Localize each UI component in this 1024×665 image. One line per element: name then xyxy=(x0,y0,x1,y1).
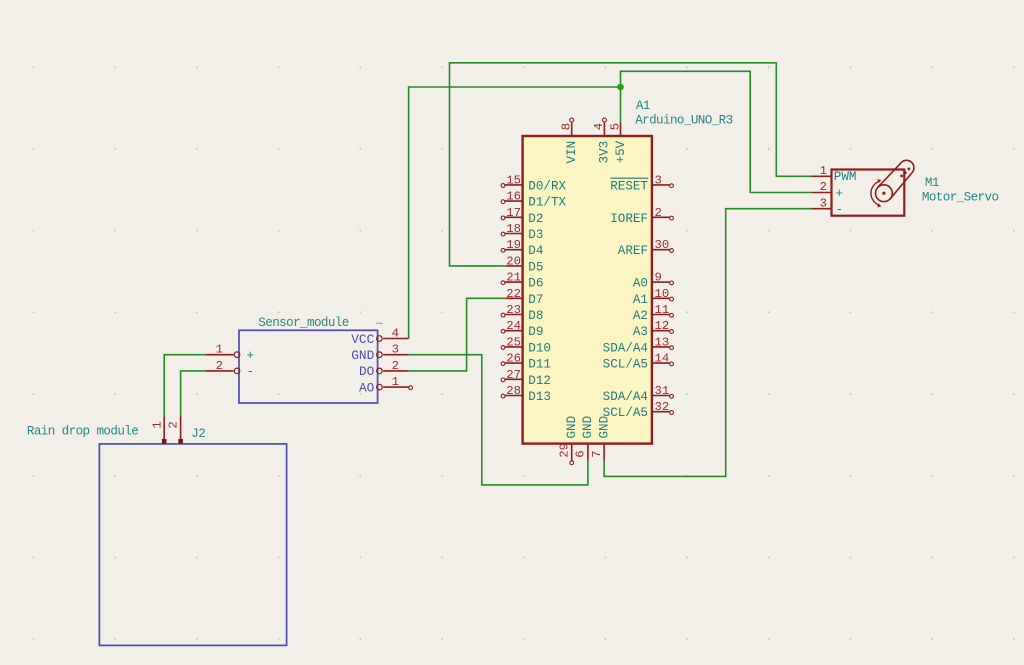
label Motor_Servo xyxy=(922,191,999,205)
pin 17 D2 xyxy=(501,206,543,226)
svg-text:1: 1 xyxy=(820,164,827,178)
wire sensor minus to J2 pin 2 xyxy=(181,371,206,416)
svg-text:D1/TX: D1/TX xyxy=(528,196,566,210)
sensor pin 4 VCC xyxy=(351,327,408,347)
label Sensor_module xyxy=(258,316,348,330)
pin 12 A3 xyxy=(633,319,674,339)
svg-text:D9: D9 xyxy=(528,325,543,339)
svg-text:2: 2 xyxy=(655,206,662,220)
svg-text:24: 24 xyxy=(506,319,521,333)
svg-text:SDA/A4: SDA/A4 xyxy=(603,390,648,404)
svg-text:GND: GND xyxy=(597,416,611,439)
svg-text:1: 1 xyxy=(216,343,223,357)
svg-text:3: 3 xyxy=(820,196,827,210)
svg-text:SDA/A4: SDA/A4 xyxy=(603,341,648,355)
svg-text:3V3: 3V3 xyxy=(598,141,612,164)
svg-text:J2: J2 xyxy=(191,427,205,441)
svg-text:2: 2 xyxy=(167,421,181,428)
pin 3 RESET xyxy=(610,173,673,193)
label Arduino_UNO_R3 xyxy=(635,114,732,128)
pin 21 D6 xyxy=(501,271,543,291)
svg-text:20: 20 xyxy=(506,254,521,268)
pin 18 D3 xyxy=(501,222,543,242)
svg-text:21: 21 xyxy=(506,271,521,285)
svg-text:22: 22 xyxy=(506,287,521,301)
pin 26 D11 xyxy=(501,352,551,372)
pin 6 GND xyxy=(574,416,596,461)
pin 4 3V3 xyxy=(592,118,612,163)
pin 19 D4 xyxy=(501,238,543,258)
svg-text:AO: AO xyxy=(359,380,375,395)
pin 10 A1 xyxy=(633,287,674,307)
svg-text:12: 12 xyxy=(655,319,670,333)
pin 27 D12 xyxy=(501,368,551,388)
label M1 xyxy=(925,176,939,190)
svg-text:AREF: AREF xyxy=(618,244,648,258)
svg-text:D8: D8 xyxy=(528,309,543,323)
svg-text:D2: D2 xyxy=(528,212,543,226)
svg-text:11: 11 xyxy=(655,303,670,317)
svg-text:SCL/A5: SCL/A5 xyxy=(603,358,648,372)
svg-text:17: 17 xyxy=(506,206,521,220)
svg-text:Rain drop module: Rain drop module xyxy=(27,425,138,439)
svg-text:A1: A1 xyxy=(633,293,648,307)
svg-text:9: 9 xyxy=(655,271,662,285)
pin 15 D0/RX xyxy=(501,173,566,193)
pin 2 IOREF xyxy=(610,206,673,226)
svg-text:IOREF: IOREF xyxy=(610,212,648,226)
svg-text:10: 10 xyxy=(655,287,670,301)
svg-text:15: 15 xyxy=(506,173,521,187)
motor pin 3 - xyxy=(812,196,843,217)
motor pin 1 PWM xyxy=(812,164,856,184)
svg-text:A3: A3 xyxy=(633,325,648,339)
svg-text:D4: D4 xyxy=(528,244,543,258)
sensor tilde mark xyxy=(376,317,384,332)
svg-text:14: 14 xyxy=(655,352,670,366)
svg-text:2: 2 xyxy=(392,359,399,373)
svg-text:16: 16 xyxy=(506,190,521,204)
pin 23 D8 xyxy=(501,303,543,323)
svg-text:D5: D5 xyxy=(528,260,543,274)
svg-text:26: 26 xyxy=(506,352,521,366)
svg-text:-: - xyxy=(247,365,255,379)
sensor pin 2 DO xyxy=(359,359,409,379)
svg-text:Motor_Servo: Motor_Servo xyxy=(922,191,999,205)
pin 16 D1/TX xyxy=(501,190,566,210)
svg-text:18: 18 xyxy=(506,222,521,236)
svg-text:VCC: VCC xyxy=(351,332,374,347)
pin 28 D13 xyxy=(501,384,551,404)
svg-text:23: 23 xyxy=(506,303,521,317)
label Rain drop module xyxy=(27,425,138,439)
svg-text:5: 5 xyxy=(608,123,622,130)
wire D5 to servo PWM net xyxy=(450,63,813,266)
pin 24 D9 xyxy=(501,319,543,339)
svg-text:RESET: RESET xyxy=(610,179,648,193)
svg-text:8: 8 xyxy=(560,123,574,130)
motor servo glyph xyxy=(871,160,914,207)
pin 8 VIN xyxy=(560,118,580,163)
J2 pin 2 xyxy=(167,416,183,444)
svg-text:Arduino_UNO_R3: Arduino_UNO_R3 xyxy=(635,114,732,128)
pin 11 A2 xyxy=(633,303,674,323)
svg-text:-: - xyxy=(836,203,844,217)
svg-text:GND: GND xyxy=(581,416,595,439)
svg-text:~: ~ xyxy=(376,317,384,332)
wire +5V pin stub xyxy=(620,87,622,123)
svg-text:D6: D6 xyxy=(528,277,543,291)
pin 9 A0 xyxy=(633,271,674,291)
svg-text:2: 2 xyxy=(216,359,223,373)
svg-text:A1: A1 xyxy=(636,99,650,113)
sensor pin 1 AO xyxy=(359,375,413,395)
svg-text:D12: D12 xyxy=(528,374,551,388)
svg-text:4: 4 xyxy=(592,123,606,130)
svg-text:VIN: VIN xyxy=(565,141,579,164)
pin 14 SCL/A5 xyxy=(603,352,674,372)
J2 pin 1 xyxy=(150,416,166,444)
pin 22 D7 xyxy=(506,287,543,307)
svg-text:31: 31 xyxy=(655,384,670,398)
svg-text:13: 13 xyxy=(655,335,670,349)
svg-text:PWM: PWM xyxy=(834,170,857,184)
svg-text:M1: M1 xyxy=(925,176,939,190)
svg-text:+: + xyxy=(836,187,844,201)
arduino A1 body xyxy=(523,136,652,444)
wire sensor GND to arduino GND pin 6 xyxy=(409,355,588,485)
wire servo minus to arduino GND pin 7 xyxy=(604,209,812,477)
sensor module body xyxy=(239,330,378,403)
pin 29 GND xyxy=(558,416,580,465)
pin 25 D10 xyxy=(501,335,551,355)
svg-text:DO: DO xyxy=(359,364,375,379)
pin 31 SDA/A4 xyxy=(603,384,674,404)
svg-text:A2: A2 xyxy=(633,309,648,323)
svg-text:28: 28 xyxy=(506,384,521,398)
svg-text:GND: GND xyxy=(351,348,374,363)
svg-text:3: 3 xyxy=(392,343,399,357)
svg-text:1: 1 xyxy=(392,375,399,389)
svg-text:D13: D13 xyxy=(528,390,551,404)
sensor pin 1 + xyxy=(206,343,254,363)
pin 5 +5V xyxy=(608,123,628,164)
svg-text:32: 32 xyxy=(655,400,670,414)
svg-text:A0: A0 xyxy=(633,277,648,291)
pin 32 SCL/A5 xyxy=(603,400,674,420)
pin 13 SDA/A4 xyxy=(603,335,674,355)
svg-text:D10: D10 xyxy=(528,341,551,355)
wire sensor DO to arduino D7 xyxy=(409,298,506,371)
svg-text:D0/RX: D0/RX xyxy=(528,179,566,193)
svg-text:25: 25 xyxy=(506,335,521,349)
svg-text:D7: D7 xyxy=(528,293,543,307)
svg-text:27: 27 xyxy=(506,368,521,382)
label J2 xyxy=(191,427,205,441)
svg-text:7: 7 xyxy=(590,450,604,457)
svg-text:Sensor_module: Sensor_module xyxy=(258,316,348,330)
sensor pin 2 - xyxy=(206,359,254,379)
svg-text:1: 1 xyxy=(150,421,164,428)
svg-text:19: 19 xyxy=(506,238,521,252)
svg-text:3: 3 xyxy=(655,173,662,187)
svg-text:2: 2 xyxy=(820,180,827,194)
svg-text:+5V: +5V xyxy=(614,140,628,163)
pin 7 GND xyxy=(590,416,612,461)
pin 30 AREF xyxy=(618,238,674,258)
svg-text:+: + xyxy=(247,349,255,363)
svg-text:29: 29 xyxy=(558,443,572,458)
svg-text:6: 6 xyxy=(574,450,588,457)
motor M1 body xyxy=(832,170,905,216)
svg-text:GND: GND xyxy=(565,416,579,439)
wire +5V to sensor VCC xyxy=(409,87,621,339)
wire +5V to servo plus xyxy=(621,71,813,192)
label A1 xyxy=(636,99,650,113)
svg-text:30: 30 xyxy=(655,238,670,252)
wire sensor plus to J2 pin 1 xyxy=(164,355,205,417)
svg-text:4: 4 xyxy=(392,327,399,341)
svg-text:D3: D3 xyxy=(528,228,543,242)
connector J2 rain drop module body xyxy=(99,444,286,646)
sensor pin 3 GND xyxy=(351,343,408,363)
motor pin 2 + xyxy=(812,180,843,201)
pin 20 D5 xyxy=(506,254,543,274)
junction +5V node xyxy=(617,84,624,91)
svg-text:D11: D11 xyxy=(528,358,551,372)
